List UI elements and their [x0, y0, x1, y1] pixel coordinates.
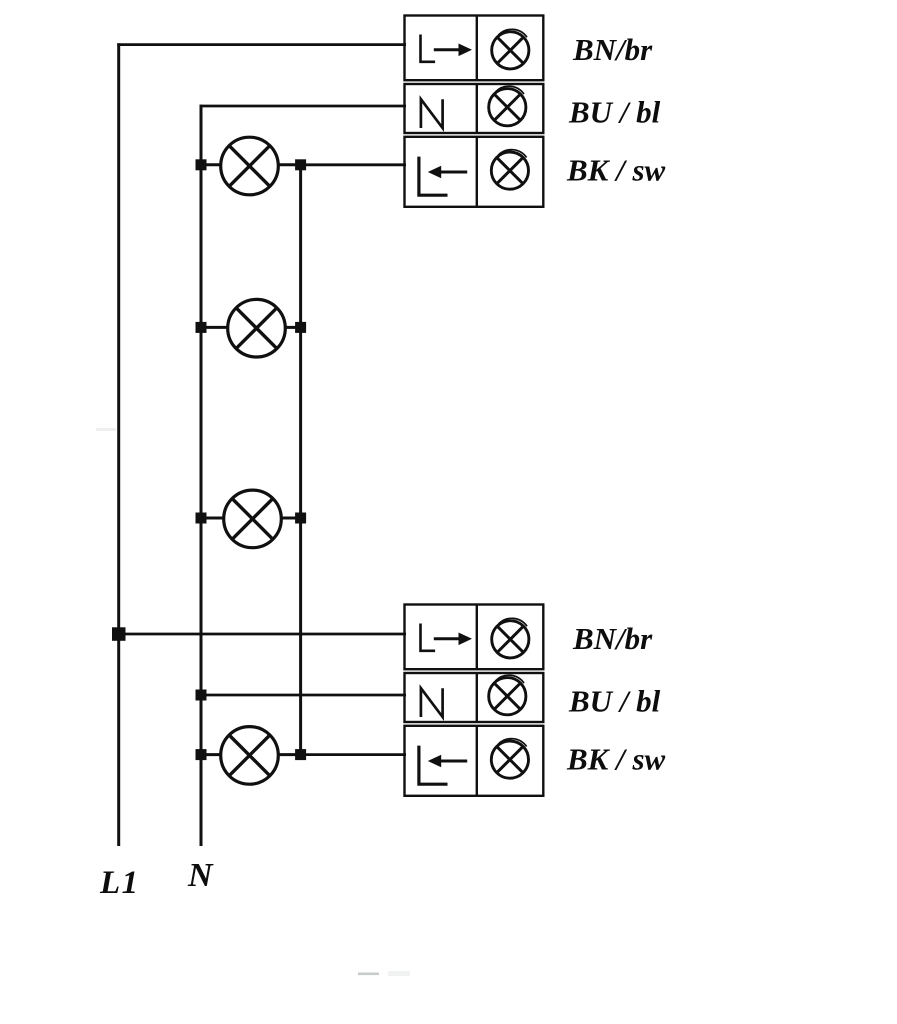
junction lamp3 right: [295, 513, 306, 524]
X2 cell row3 box: [405, 726, 544, 796]
lamp E1: [201, 137, 301, 195]
svg-text:BN/br: BN/br: [572, 32, 653, 67]
X2 N symbol row2: [421, 688, 443, 717]
X2 L-arrow symbol row1: [421, 624, 436, 651]
junction lamp4 left: [196, 749, 207, 760]
X1 terminal circle row3: [491, 152, 528, 189]
wire lamp1 to upper block arrow-terminal: [301, 163, 406, 166]
svg-text:BN/br: BN/br: [572, 621, 653, 656]
junction L1 tap: [112, 627, 126, 641]
X1 return L-arrow symbol row3: [419, 157, 448, 196]
svg-text:BK / sw: BK / sw: [566, 153, 666, 188]
terminal block X2 (lower switch connection): [405, 605, 544, 796]
X1 cell row3 box: [405, 137, 544, 207]
lamp E3: [201, 490, 301, 548]
X2 cell row2 box: [405, 673, 544, 722]
wire L1 vertical feeder: [117, 43, 120, 846]
junction N tap: [196, 690, 207, 701]
X1 cell row1 box: [405, 16, 544, 81]
wire N vertical feeder: [200, 105, 203, 846]
X1 cell row2 box: [405, 84, 544, 133]
X2 terminal circle row2: [489, 678, 526, 715]
scan noise smudge: [96, 428, 116, 431]
lamp E2: [201, 299, 301, 357]
wire lamp4 to lower block arrow-terminal: [301, 753, 406, 756]
scan noise dash: [358, 973, 379, 976]
X1 terminal circle row1: [492, 32, 529, 69]
junction lamp3 left: [196, 513, 207, 524]
wire switched-line vertical (lamp returns): [299, 165, 302, 755]
X1 terminal circle row2: [489, 89, 526, 126]
junction lamp2 right: [295, 322, 306, 333]
scan noise smudge: [388, 971, 410, 976]
X2 terminal circle row3: [491, 741, 528, 778]
svg-text:N: N: [187, 857, 214, 894]
X2 return L-arrow symbol row3: [419, 746, 448, 785]
junction lamp4 right: [295, 749, 306, 760]
X2 cell row1 box: [405, 605, 544, 670]
junction lamp1 left: [196, 159, 207, 170]
svg-text:BU / bl: BU / bl: [568, 684, 661, 719]
svg-text:L1: L1: [99, 865, 140, 901]
wire N to lower block N-terminal: [201, 694, 406, 697]
junction lamp1 right: [295, 159, 306, 170]
X1 N symbol row2: [421, 99, 443, 128]
X2 terminal circle row1: [492, 621, 529, 658]
X1 L-arrow symbol row1: [421, 35, 436, 62]
wire L1 top horizontal to upper block L-terminal: [117, 43, 406, 46]
wire N top horizontal to upper block N-terminal: [200, 105, 406, 108]
lamp E4: [201, 727, 301, 785]
junction lamp2 left: [196, 322, 207, 333]
wire L1 to lower block L-terminal: [119, 633, 406, 636]
terminal block X1 (upper switch connection): [405, 16, 544, 207]
svg-text:BU / bl: BU / bl: [568, 95, 661, 130]
svg-text:BK / sw: BK / sw: [566, 742, 666, 777]
